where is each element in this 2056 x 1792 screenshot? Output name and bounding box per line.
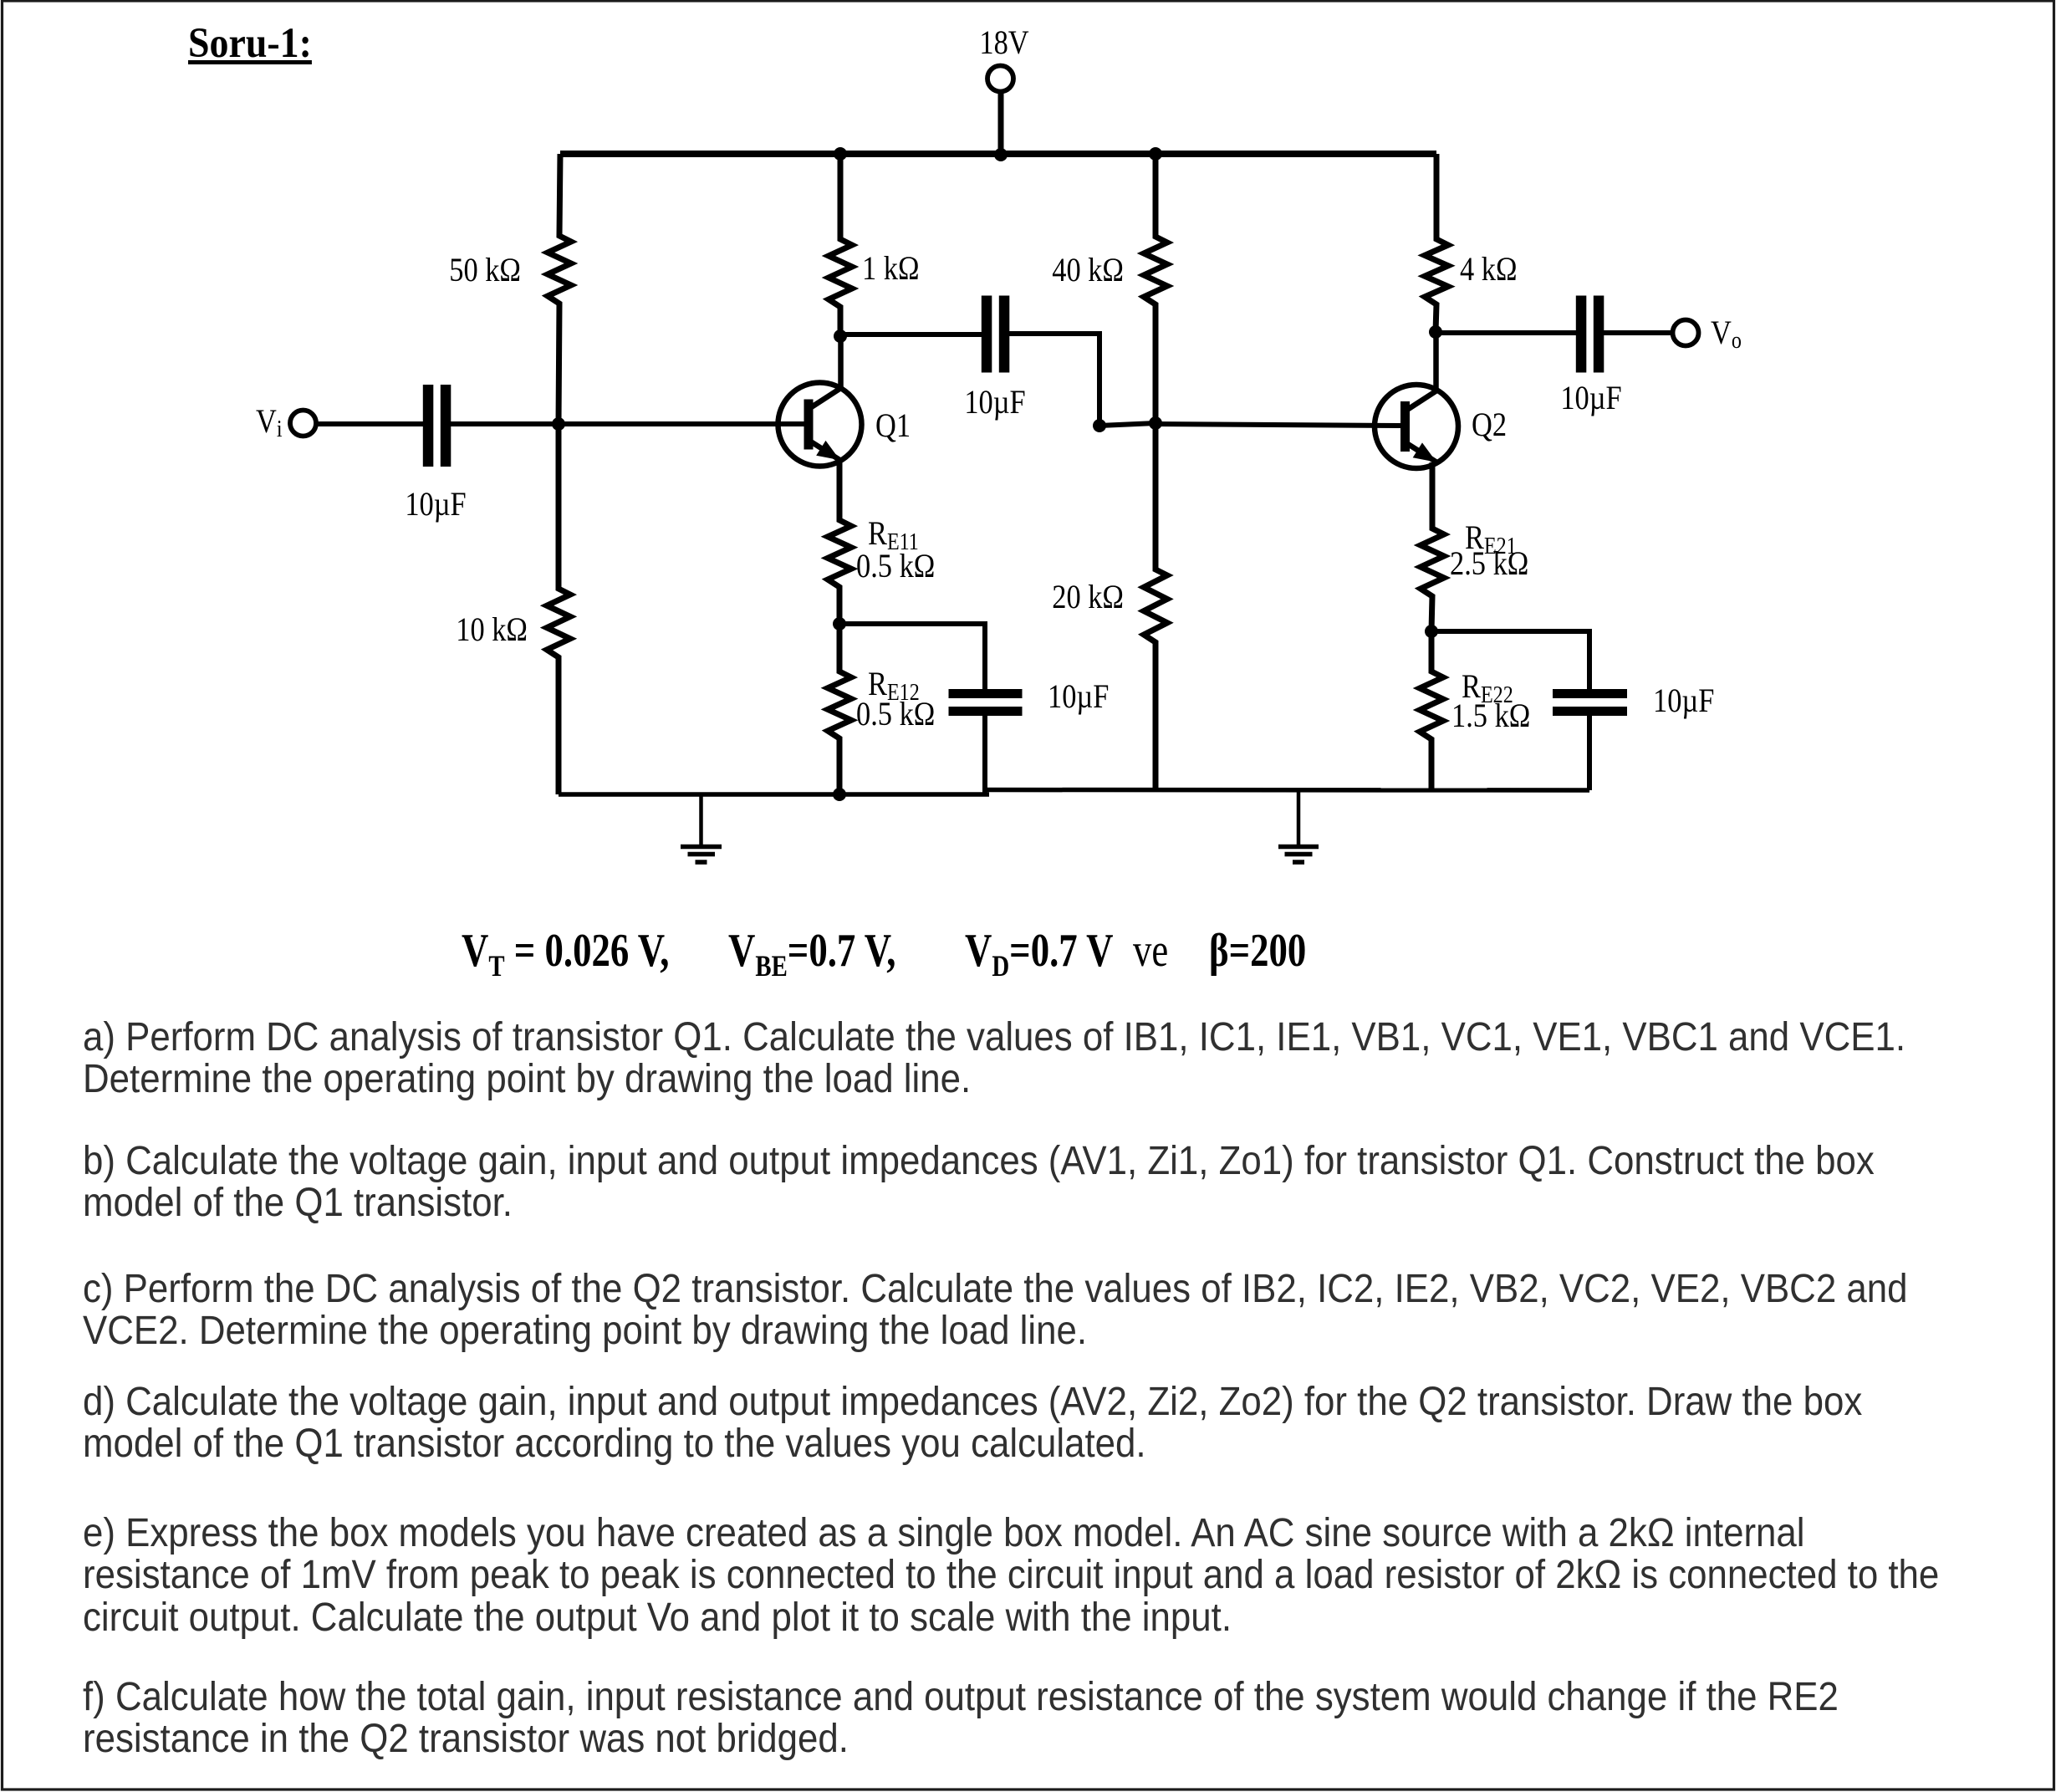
junction node: coupling wire to base row <box>1093 419 1106 432</box>
junction node: Q2 collector <box>1429 325 1442 339</box>
paragraph a <box>83 1017 2056 1101</box>
paragraph f <box>83 1677 2056 1761</box>
junction node: RE12 to ground bus <box>833 788 846 801</box>
svg-text:10µF: 10µF <box>1560 380 1621 417</box>
svg-text:10µF: 10µF <box>1048 679 1109 716</box>
paragraph d <box>83 1381 2056 1466</box>
paragraph b <box>83 1141 2056 1225</box>
svg-text:10µF: 10µF <box>405 487 466 523</box>
svg-text:4 kΩ: 4 kΩ <box>1460 252 1518 288</box>
wire C3 to ground bus <box>982 714 987 794</box>
capacitor C4 10uF (output coupling) <box>1576 296 1587 373</box>
wire C4 to Vo <box>1602 330 1672 335</box>
resistor 20 kOhm (Q2 lower bias) <box>1144 423 1167 789</box>
svg-text:Vo: Vo <box>1711 315 1742 354</box>
resistor 10 kOhm (R2, lower bias divider) <box>547 424 570 794</box>
input terminal Vi <box>290 411 316 437</box>
svg-text:18V: 18V <box>979 25 1028 62</box>
wire Q1 collector to C2 <box>840 332 983 337</box>
junction node: Q1 collector <box>834 329 847 343</box>
parameters line <box>462 924 669 978</box>
wire RE21/RE22 node to C5 <box>1431 631 1589 691</box>
resistor 4 kOhm (Q2 collector load) <box>1425 154 1448 332</box>
junction node: 40k branch on top bus <box>1149 147 1162 161</box>
resistor RE21 2.5 kOhm (Q2 emitter) <box>1421 462 1444 631</box>
paragraph e <box>83 1513 2056 1639</box>
junction node: 18V on top bus <box>994 148 1008 161</box>
junction node: RE11/RE12 <box>833 617 846 631</box>
wire Vi to C1 <box>318 421 425 426</box>
capacitor C1 10uF (input coupling) <box>423 385 434 467</box>
svg-text:20 kΩ: 20 kΩ <box>1052 579 1124 616</box>
capacitor C5 10uF (emitter bypass 2) <box>1553 689 1627 698</box>
resistor 40 kOhm (Q2 upper bias) <box>1144 154 1167 423</box>
resistor 1 kOhm (Q1 collector load) <box>829 154 852 336</box>
output terminal Vo <box>1673 320 1699 346</box>
junction node: divider tap / Q1 base <box>552 417 565 431</box>
svg-text:0.5 kΩ: 0.5 kΩ <box>856 697 935 733</box>
wire ground bus 2 <box>987 788 1589 793</box>
ground symbol 2 <box>1278 790 1319 862</box>
wire top supply bus <box>560 151 1436 157</box>
svg-text:10µF: 10µF <box>964 385 1025 421</box>
svg-text:Q1: Q1 <box>875 408 911 445</box>
wire RE11/RE12 node to C3 <box>839 624 985 691</box>
paragraph c <box>83 1269 2056 1353</box>
svg-text:Vi: Vi <box>256 404 283 442</box>
svg-text:Q2: Q2 <box>1472 407 1507 444</box>
wire Q2 collector to C4 <box>1436 330 1579 335</box>
resistor 50 kOhm (R1, upper bias divider) <box>548 154 571 424</box>
wire C5 to ground bus <box>1587 714 1592 790</box>
capacitor C3 10uF (emitter bypass 1) <box>949 689 1023 698</box>
svg-text:40 kΩ: 40 kΩ <box>1052 253 1124 289</box>
junction node: divider2 tap <box>1149 416 1162 430</box>
svg-text:10µF: 10µF <box>1653 683 1714 720</box>
wire C2 to Q2 base node <box>1008 334 1099 426</box>
svg-text:1 kΩ: 1 kΩ <box>862 251 920 288</box>
resistor RE22 1.5 kOhm <box>1420 631 1443 789</box>
power terminal 18V <box>987 66 1013 155</box>
svg-text:10 kΩ: 10 kΩ <box>456 612 528 649</box>
svg-text:1.5 kΩ: 1.5 kΩ <box>1451 698 1530 735</box>
wire junction to divider2 tap <box>1099 423 1156 426</box>
resistor RE11 0.5 kOhm (Q1 emitter) <box>828 461 851 624</box>
title Soru-1: <box>188 19 312 68</box>
junction node: RE21/RE22 <box>1425 625 1438 638</box>
svg-text:2.5 kΩ: 2.5 kΩ <box>1450 546 1528 583</box>
svg-text:0.5 kΩ: 0.5 kΩ <box>856 549 935 585</box>
resistor RE12 0.5 kOhm <box>828 624 851 794</box>
junction node: 1k branch on top bus <box>834 147 847 161</box>
transistor Q2 <box>1375 332 1458 468</box>
ground symbol 1 <box>681 794 722 862</box>
wire divider2 tap to Q2 base <box>1156 424 1401 426</box>
svg-text:50 kΩ: 50 kΩ <box>449 253 521 289</box>
wire ground bus 1 <box>559 792 989 797</box>
wire C1 to Q1 base <box>451 421 805 426</box>
transistor Q1 <box>778 336 862 467</box>
capacitor C2 10uF (interstage coupling) <box>982 296 992 373</box>
